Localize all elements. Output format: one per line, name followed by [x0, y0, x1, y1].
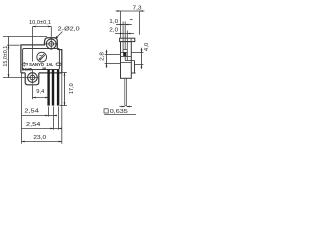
2,8 dimension line [106, 50, 108, 68]
side view molded body [121, 42, 132, 79]
1,0 left arrowhead outside [120, 24, 123, 26]
side view lower boss bump right [131, 61, 135, 74]
4,0 dimension line [141, 48, 143, 69]
9,4 dimension line [33, 97, 49, 99]
9,4 extension line from lower hole [32, 85, 34, 99]
side view small ledge tick [130, 19, 133, 21]
lower mounting hole outer circle [28, 73, 38, 83]
2,0 extension line [126, 31, 128, 39]
side view internal horizontal at 52.5 [121, 52, 128, 54]
lower mounting boss bulge [25, 73, 39, 85]
9,4 right arrowhead [45, 97, 48, 99]
side view internal horizontal at 62.5 [121, 62, 132, 64]
10,0 right arrowhead [48, 26, 51, 28]
svg-text:17,0: 17,0 [69, 83, 75, 94]
23,0 left arrowhead [22, 141, 25, 143]
dimension 0,635 square symbol [104, 109, 108, 113]
marking: lot oval [56, 63, 61, 66]
svg-text:2-Ø2,0: 2-Ø2,0 [58, 27, 80, 33]
inner plateau rounded rect [23, 49, 60, 70]
side view internal vertical c [126, 42, 128, 61]
side view internal horizontal at 49.5 [123, 49, 127, 51]
0,635 right arrowhead at pin [127, 106, 130, 108]
7,3 left arrowhead outside [117, 10, 120, 12]
17,0 top arrowhead [64, 73, 66, 76]
pin 2 extension line [53, 107, 55, 130]
2-Ø2,0 leader line [56, 32, 63, 39]
upper hole crosshair horizontal [45, 43, 58, 45]
2,8 bottom arrowhead outside [106, 64, 108, 67]
2-Ø2,0 leader arrowhead [55, 36, 58, 39]
1,0 extension line b [124, 22, 126, 39]
side view pin section dark box [123, 52, 126, 56]
side view boss top band [120, 38, 135, 41]
10,0 left arrowhead [33, 26, 36, 28]
body right extension line down to 23,0 [61, 73, 63, 144]
upper hole crosshair vertical + extension to 10,0 dim [50, 27, 52, 50]
dimension 10,0±0,1 line [33, 26, 52, 28]
2,0 dimension line [115, 33, 134, 35]
marking: logo circle [37, 52, 47, 62]
2,54 second right arrowhead outside [59, 128, 62, 130]
svg-text:2,0: 2,0 [109, 27, 118, 33]
side view pin below body [125, 78, 127, 105]
svg-text:1AL: 1AL [46, 62, 53, 67]
2,54 second dimension line [22, 128, 62, 130]
svg-text:10,0±0,1: 10,0±0,1 [29, 20, 51, 26]
extension line from lower hole up to 10,0 dimension [32, 27, 34, 62]
0,635 right arrow line at pin [127, 106, 133, 108]
4,0 top extension line [131, 52, 143, 54]
lower hole crosshair vertical [32, 70, 34, 84]
7,3 right arrowhead outside [140, 10, 143, 12]
15,0 bottom arrowhead [8, 74, 10, 77]
7,3 dimension line [116, 10, 145, 12]
lower hole crosshair horizontal + 15,0 bottom extension line [3, 77, 39, 79]
2,8 bottom extension line [105, 63, 121, 65]
9,4 left arrowhead [33, 97, 36, 99]
7,3 left extension line [120, 11, 122, 38]
body left extension line down to 23,0 [21, 74, 23, 144]
4,0 bottom arrowhead outside [141, 65, 143, 68]
svg-text:2,54: 2,54 [24, 108, 39, 114]
2,8 top arrowhead outside [106, 51, 108, 54]
15,0 dimension line [8, 37, 10, 78]
side view internal horizontal at 60.5 [125, 60, 134, 62]
2,54 first dimension line [22, 115, 58, 117]
17,0 top extension line [63, 72, 67, 74]
7,3 right extension line [139, 11, 141, 35]
23,0 dimension line [22, 141, 62, 143]
svg-text:1,0: 1,0 [109, 19, 118, 25]
marking: orientation arrow glyph [22, 63, 28, 67]
2,54 first left arrowhead outside [45, 115, 48, 117]
15,0 top extension line (boss top) [3, 36, 47, 38]
15,0 top extension line at body top [7, 44, 20, 46]
17,0 bottom arrowhead [64, 102, 66, 105]
upper mounting hole outer circle [46, 39, 56, 49]
2,54 first right arrowhead outside [54, 115, 57, 117]
svg-text:9,4: 9,4 [36, 89, 44, 95]
0,635 left arrow line at pin [120, 106, 125, 108]
upper mounting hole inner circle [49, 42, 54, 47]
17,0 dimension line [64, 73, 66, 106]
4,0 top arrowhead outside [141, 49, 143, 52]
0,635 left arrowhead at pin [122, 106, 125, 108]
front view package body outline [21, 38, 62, 73]
2,8 top extension line [105, 54, 121, 56]
1,0 dimension line [116, 24, 132, 26]
side view band divider a [122, 38, 124, 41]
pin 3 extension line [58, 107, 60, 130]
pin 1 [47, 70, 49, 106]
svg-text:23,0: 23,0 [33, 135, 46, 141]
2,54 second left arrowhead outside [50, 128, 53, 130]
svg-text:B1185: B1185 [22, 66, 33, 71]
svg-text:2,8: 2,8 [99, 52, 105, 61]
marking: logo glyph [39, 54, 45, 60]
pin 2 [52, 70, 54, 106]
23,0 right arrowhead [59, 141, 62, 143]
svg-text:5B: 5B [42, 67, 46, 71]
side view internal horizontal at 56.5 [121, 56, 132, 58]
17,0 bottom extension line [60, 105, 67, 107]
1,0 right arrowhead outside [125, 24, 128, 26]
svg-text:2,54: 2,54 [26, 122, 41, 128]
4,0 bottom extension line [135, 64, 144, 66]
pin 1 extension line [48, 107, 50, 117]
side view band divider c [126, 38, 128, 41]
0,635 underline leader [104, 114, 136, 116]
2,0 left arrowhead outside [120, 33, 123, 35]
2,0 right arrowhead outside [127, 33, 130, 35]
pin 3 [57, 70, 59, 106]
side view internal vertical b [124, 42, 126, 50]
side view band divider d [130, 38, 132, 41]
lower mounting hole inner circle [30, 75, 35, 80]
svg-text:4,0: 4,0 [144, 43, 150, 52]
1,0 extension line a [122, 22, 124, 39]
side view internal vertical d [124, 57, 126, 61]
side view band divider b [124, 38, 126, 41]
15,0 top arrowhead [8, 45, 10, 48]
side view internal vertical a [122, 42, 124, 53]
